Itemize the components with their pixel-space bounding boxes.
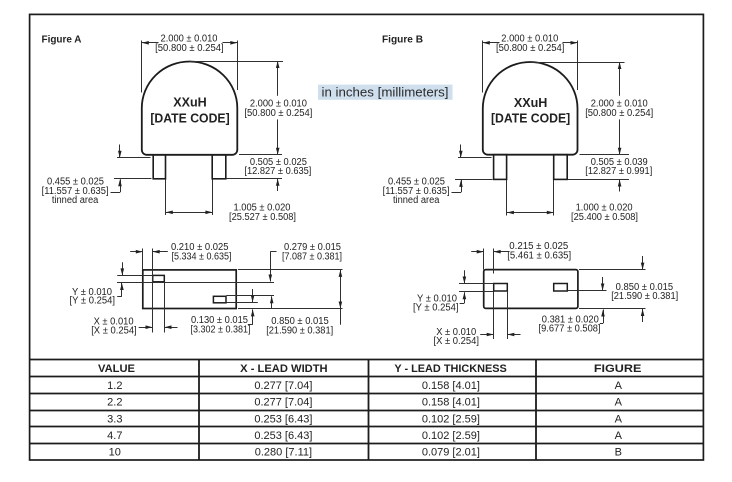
svg-text:[12.827 ± 0.635]: [12.827 ± 0.635]	[244, 166, 311, 177]
svg-text:Figure A: Figure A	[42, 34, 82, 46]
Figure B width dimension 2.000	[483, 33, 578, 92]
svg-text:[50.800 ± 0.254]: [50.800 ± 0.254]	[244, 108, 312, 119]
svg-text:[5.334 ± 0.635]: [5.334 ± 0.635]	[172, 252, 232, 263]
Figure A inductor body outline	[142, 61, 238, 154]
Figure B right lead	[554, 155, 568, 180]
table data row 2.2	[107, 397, 622, 409]
Figure B lead length dimension 0.505	[568, 157, 653, 192]
svg-text:[21.590 ± 0.381]: [21.590 ± 0.381]	[611, 291, 678, 302]
Figure A lead spacing dimension 1.005	[166, 180, 297, 223]
Figure A width dimension 2.000	[142, 33, 238, 92]
svg-text:0.253 [6.43]: 0.253 [6.43]	[254, 430, 312, 442]
svg-text:[9.677 ± 0.508]: [9.677 ± 0.508]	[539, 324, 601, 335]
svg-text:0.102 [2.59]: 0.102 [2.59]	[422, 430, 480, 442]
Figure B lead spacing dimension 1.000	[507, 180, 639, 223]
Figure A bottom pad offset dimension 0.279	[269, 242, 343, 308]
Figure A title	[42, 34, 82, 46]
Figure B tinned area dimension 0.455	[383, 145, 493, 207]
Figure A bottom lead offset dimension 0.210	[130, 242, 232, 332]
Figure A bottom body width dimension 0.850	[238, 270, 343, 337]
svg-text:0.102 [2.59]: 0.102 [2.59]	[422, 413, 480, 425]
table data row 10	[109, 447, 622, 459]
svg-text:[50.800 ± 0.254]: [50.800 ± 0.254]	[496, 43, 565, 54]
Figure B inductor body outline	[483, 62, 578, 155]
Figure A bottom view right lead pad	[213, 296, 226, 303]
svg-text:[50.800 ± 0.254]: [50.800 ± 0.254]	[585, 108, 653, 119]
svg-text:[Y ± 0.254]: [Y ± 0.254]	[413, 302, 459, 313]
table data row 4.7	[107, 430, 622, 442]
svg-text:4.7: 4.7	[107, 430, 122, 442]
Figure A height dimension 2.000	[190, 61, 314, 155]
Figure A marking text XXuH	[173, 96, 207, 110]
svg-text:0.079 [2.01]: 0.079 [2.01]	[422, 447, 480, 459]
Figure B left lead	[494, 155, 507, 180]
svg-text:0.158 [4.01]: 0.158 [4.01]	[422, 397, 480, 409]
Figure A bottom view outline	[143, 270, 236, 309]
svg-text:3.3: 3.3	[107, 413, 122, 425]
Figure B bottom lead width dimension X	[434, 291, 521, 347]
Figure A left lead	[153, 155, 165, 179]
svg-text:tinned area: tinned area	[393, 195, 440, 206]
svg-text:[5.461 ± 0.635]: [5.461 ± 0.635]	[507, 251, 571, 262]
svg-text:[X ± 0.254]: [X ± 0.254]	[91, 326, 137, 337]
Figure A bottom lead width dimension X	[91, 282, 177, 337]
svg-text:0.158 [4.01]: 0.158 [4.01]	[422, 380, 480, 392]
svg-text:A: A	[615, 430, 623, 442]
Figure A bottom view left lead pad	[153, 275, 165, 281]
Figure B bottom body width dimension 0.850	[579, 256, 678, 322]
units note highlight	[318, 85, 453, 100]
Figure A tinned area dimension 0.455	[42, 145, 152, 207]
Figure A lead length dimension 0.505	[226, 157, 311, 191]
Figure A right lead	[212, 155, 226, 179]
Figure B title	[382, 34, 423, 46]
svg-text:[7.087 ± 0.381]: [7.087 ± 0.381]	[282, 252, 342, 263]
svg-text:FIGURE: FIGURE	[594, 363, 642, 375]
svg-text:XXuH: XXuH	[173, 96, 207, 110]
svg-text:X - LEAD WIDTH: X - LEAD WIDTH	[240, 363, 328, 375]
svg-text:[Y ± 0.254]: [Y ± 0.254]	[70, 295, 116, 306]
svg-text:2.2: 2.2	[107, 397, 122, 409]
Figure B bottom view outline	[484, 270, 578, 309]
svg-text:XXuH: XXuH	[514, 96, 548, 110]
Figure B bottom pad inset dimension 0.381	[539, 277, 607, 335]
svg-text:in inches [millimeters]: in inches [millimeters]	[322, 85, 449, 100]
Figure B marking text XXuH	[514, 96, 548, 110]
svg-text:10: 10	[109, 447, 121, 459]
svg-text:B: B	[615, 447, 622, 459]
svg-text:tinned area: tinned area	[52, 195, 99, 206]
svg-text:A: A	[615, 413, 623, 425]
svg-text:Y - LEAD THICKNESS: Y - LEAD THICKNESS	[394, 363, 507, 375]
Figure A bottom lead thickness dimension Y	[70, 262, 275, 306]
svg-text:[DATE CODE]: [DATE CODE]	[491, 112, 570, 126]
svg-text:1.2: 1.2	[107, 380, 122, 392]
svg-text:[25.400 ± 0.508]: [25.400 ± 0.508]	[571, 212, 638, 223]
Figure A marking text DATE CODE	[150, 111, 229, 125]
Figure B bottom lead thickness dimension Y	[413, 270, 494, 313]
table data row 3.3	[107, 413, 622, 425]
svg-text:A: A	[615, 380, 623, 392]
Figure B bottom view right lead pad	[554, 284, 568, 292]
svg-text:[12.827 ± 0.991]: [12.827 ± 0.991]	[585, 166, 652, 177]
table header row	[98, 363, 641, 375]
Figure B bottom view left lead pad	[494, 284, 508, 292]
svg-text:0.253 [6.43]: 0.253 [6.43]	[254, 413, 312, 425]
Figure B height dimension 2.000	[530, 62, 654, 155]
Figure B marking text DATE CODE	[491, 112, 570, 126]
Figure B bottom lead offset dimension 0.215	[471, 241, 571, 339]
table data row 1.2	[107, 380, 622, 392]
svg-text:VALUE: VALUE	[98, 363, 135, 375]
svg-text:[3.302 ± 0.381]: [3.302 ± 0.381]	[191, 324, 251, 335]
svg-text:[25.527 ± 0.508]: [25.527 ± 0.508]	[229, 212, 296, 223]
svg-text:[50.800 ± 0.254]: [50.800 ± 0.254]	[155, 43, 224, 54]
svg-text:0.277 [7.04]: 0.277 [7.04]	[254, 380, 312, 392]
svg-text:[21.590 ± 0.381]: [21.590 ± 0.381]	[266, 325, 333, 336]
units note text	[322, 85, 449, 100]
Figure A bottom right pad inset dimension 0.130	[191, 289, 275, 335]
table grid	[30, 360, 704, 461]
svg-text:0.277 [7.04]: 0.277 [7.04]	[254, 397, 312, 409]
svg-text:A: A	[615, 397, 623, 409]
svg-text:[X ± 0.254]: [X ± 0.254]	[434, 336, 480, 347]
svg-text:0.280 [7.11]: 0.280 [7.11]	[255, 447, 312, 459]
svg-text:Figure B: Figure B	[382, 34, 423, 46]
svg-text:[DATE CODE]: [DATE CODE]	[150, 111, 229, 125]
